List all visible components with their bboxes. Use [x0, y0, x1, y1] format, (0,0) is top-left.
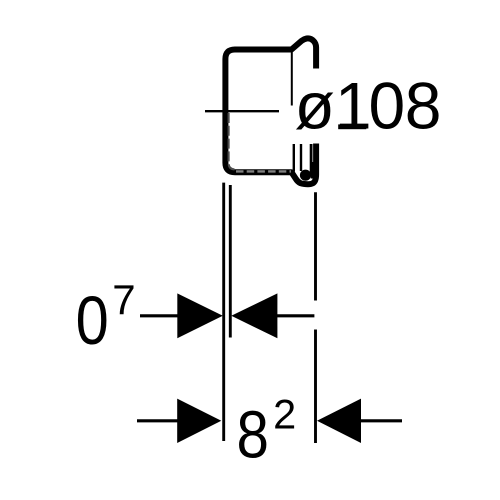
- depth dimension arrow left-pointing: [317, 399, 361, 443]
- svg-text:2: 2: [273, 391, 296, 438]
- depth dimension tail right: [361, 419, 403, 422]
- extension line left inner: [229, 185, 232, 338]
- o-ring seal dot: [300, 170, 311, 181]
- wall dimension tail left: [140, 314, 178, 317]
- wall thickness label 0: [76, 282, 109, 359]
- socket mouth edge line: [291, 50, 293, 106]
- svg-text:8: 8: [237, 398, 269, 473]
- wall dimension tail right: [277, 314, 314, 317]
- end cap body outline: [225, 38, 316, 184]
- extension line right lower: [314, 330, 317, 444]
- hidden inner surface dashed line horizontal: [236, 170, 291, 172]
- bead inner wall line: [310, 144, 313, 174]
- svg-text:ø108: ø108: [295, 69, 442, 143]
- depth dimension tail left: [137, 419, 178, 422]
- extension line left outer: [222, 183, 225, 441]
- depth dimension arrow right-pointing: [177, 399, 221, 443]
- socket inner wall line A: [293, 144, 295, 172]
- insertion depth label 8: [237, 398, 269, 473]
- socket inner wall line B: [300, 144, 302, 171]
- centre axis line: [205, 110, 279, 112]
- hidden inner surface dashed line vertical: [229, 113, 235, 169]
- wall dimension arrow right-pointing: [177, 293, 223, 338]
- bead leg gap filler: [311, 162, 314, 179]
- svg-text:0: 0: [76, 282, 109, 359]
- svg-text:7: 7: [112, 276, 135, 323]
- foot bar of digit 1: [338, 124, 366, 129]
- extension line right upper: [314, 192, 317, 300]
- wall dimension arrow left-pointing: [231, 293, 277, 338]
